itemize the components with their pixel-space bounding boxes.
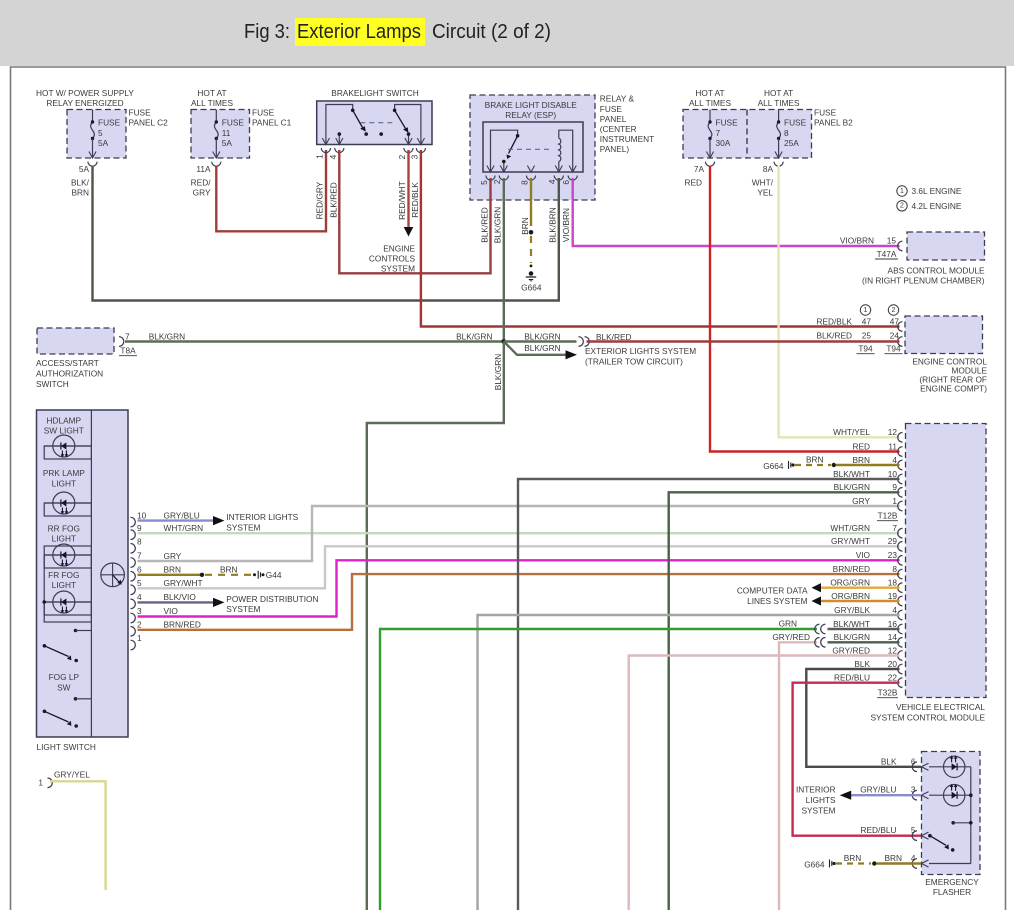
svg-text:(IN RIGHT PLENUM CHAMBER): (IN RIGHT PLENUM CHAMBER): [862, 276, 985, 286]
svg-text:12: 12: [888, 645, 898, 655]
svg-text:BLK/GRN: BLK/GRN: [493, 354, 503, 390]
svg-text:5: 5: [137, 578, 142, 588]
svg-text:GRY/YEL: GRY/YEL: [54, 770, 90, 780]
wire GRY/RED module pin 12 to bottom: [629, 656, 900, 910]
svg-text:7A: 7A: [694, 164, 705, 174]
svg-text:5: 5: [479, 180, 489, 185]
wire RED/BLK brakelight pin 3 to engine control module pin 47: [421, 150, 900, 327]
svg-text:LINES SYSTEM: LINES SYSTEM: [747, 596, 807, 606]
svg-text:12: 12: [888, 427, 898, 437]
svg-text:5A: 5A: [222, 138, 233, 148]
wire ORG/BRN module pin 19 to computer data lines: [812, 596, 900, 605]
svg-text:4: 4: [892, 605, 897, 615]
svg-text:G664: G664: [521, 283, 542, 293]
svg-text:GRN: GRN: [779, 619, 797, 629]
svg-text:3: 3: [409, 154, 419, 159]
svg-text:1: 1: [38, 778, 43, 788]
svg-text:BLK: BLK: [881, 756, 897, 766]
svg-text:4.2L ENGINE: 4.2L ENGINE: [912, 201, 962, 211]
svg-text:2: 2: [900, 203, 904, 210]
ground G664 dashed BRN to module pin 4: [763, 454, 899, 471]
svg-text:FUSE: FUSE: [129, 108, 152, 118]
junction node BLK/GRN: [501, 339, 506, 344]
svg-text:BRN: BRN: [520, 217, 530, 235]
svg-text:2: 2: [892, 307, 896, 314]
svg-text:BLK/GRN: BLK/GRN: [149, 331, 185, 341]
svg-text:PRK LAMP: PRK LAMP: [43, 468, 85, 478]
brake light disable relay (ESP): [470, 95, 595, 243]
wire BLK/GRN access switch to junction: [125, 331, 504, 341]
svg-text:BRN: BRN: [164, 565, 182, 575]
svg-text:BLK/VIO: BLK/VIO: [164, 592, 197, 602]
ground G664 below relay pin 8: [521, 178, 542, 293]
svg-text:HOT AT: HOT AT: [695, 88, 724, 98]
svg-text:8: 8: [519, 180, 529, 185]
wire BLK/WHT module pin 10 to bottom: [518, 479, 900, 910]
svg-text:POWER DISTRIBUTION: POWER DISTRIBUTION: [226, 594, 318, 604]
svg-text:ORG/GRN: ORG/GRN: [830, 578, 870, 588]
svg-text:PANEL C1: PANEL C1: [252, 118, 292, 128]
label computer data lines system: [737, 586, 808, 607]
svg-text:11: 11: [222, 128, 231, 138]
svg-text:VIO/BRN: VIO/BRN: [561, 208, 571, 242]
svg-text:WHT/: WHT/: [752, 177, 774, 187]
svg-text:11A: 11A: [196, 164, 211, 174]
svg-text:16: 16: [888, 619, 898, 629]
svg-text:ENGINE: ENGINE: [383, 244, 415, 254]
wire BLK/GRN junction to inline connector and BLK/RED to engine control module pin 25: [504, 331, 900, 346]
svg-text:GRY/BLU: GRY/BLU: [164, 510, 200, 520]
wire GRY/YEL light switch pin 1 connector below: [38, 770, 105, 891]
svg-text:RED: RED: [852, 441, 870, 451]
wire ORG/GRN module pin 18 to computer data lines: [812, 583, 900, 592]
svg-text:HDLAMP: HDLAMP: [47, 415, 82, 425]
svg-text:ACCESS/START: ACCESS/START: [36, 358, 99, 368]
svg-text:18: 18: [888, 578, 898, 588]
svg-text:FUSE: FUSE: [222, 118, 245, 128]
wire BLK module pin 20 to emergency flasher pin 6: [806, 669, 921, 767]
svg-text:BLK/GRN: BLK/GRN: [524, 331, 560, 341]
wire GRN from bottom to module pin 16 (BLK/WHT): [380, 619, 900, 910]
svg-text:G664: G664: [763, 461, 784, 471]
fuse F11 (FUSE PANEL C1): [191, 88, 292, 197]
svg-text:GRY/BLK: GRY/BLK: [834, 605, 870, 615]
legend engine variants: [897, 186, 962, 211]
svg-text:RELAY &: RELAY &: [600, 94, 635, 104]
svg-text:RED/BLK: RED/BLK: [410, 182, 420, 218]
svg-text:BLK/RED: BLK/RED: [816, 331, 852, 341]
wire BLK/GRN relay pin 2 to junction: [503, 178, 505, 342]
svg-text:15: 15: [887, 235, 897, 245]
svg-text:INSTRUMENT: INSTRUMENT: [600, 134, 654, 144]
svg-text:RED/GRY: RED/GRY: [315, 181, 325, 219]
svg-text:PANEL): PANEL): [600, 144, 630, 154]
svg-text:Exterior Lamps: Exterior Lamps: [297, 21, 421, 43]
svg-text:ABS CONTROL MODULE: ABS CONTROL MODULE: [888, 265, 985, 275]
svg-text:BRN: BRN: [852, 455, 870, 465]
svg-text:7: 7: [716, 128, 721, 138]
svg-text:VIO/BRN: VIO/BRN: [840, 235, 874, 245]
wire RED fuse 7 to module pin 11: [710, 166, 900, 452]
svg-text:6: 6: [911, 756, 916, 766]
wire RED/BLU module pin 22 to emergency flasher pin 5: [793, 683, 921, 836]
svg-text:BRN: BRN: [885, 853, 903, 863]
wire BRN/RED pin 2 to module pin 8: [138, 574, 900, 630]
ABS control module: [840, 232, 985, 286]
svg-text:T94: T94: [858, 344, 873, 354]
svg-text:7: 7: [137, 551, 142, 561]
svg-text:FUSE: FUSE: [600, 104, 623, 114]
svg-text:WHT/YEL: WHT/YEL: [833, 427, 870, 437]
svg-text:4: 4: [892, 455, 897, 465]
svg-text:7: 7: [892, 523, 897, 533]
brakelight switch: [314, 88, 432, 220]
svg-text:BLK/RED: BLK/RED: [596, 332, 632, 342]
wire RED/WHT brakelight pin 2 to engine controls system: [404, 150, 414, 237]
svg-text:PANEL: PANEL: [600, 114, 627, 124]
light switch: [37, 410, 129, 752]
label engine controls system: [369, 244, 416, 274]
fuse panel B2 (fuses 7 and 8): [683, 88, 853, 197]
svg-text:(CENTER: (CENTER: [600, 124, 637, 134]
svg-text:EXTERIOR LIGHTS SYSTEM: EXTERIOR LIGHTS SYSTEM: [585, 346, 696, 356]
svg-text:9: 9: [137, 523, 142, 533]
wire BLK/BRN from fuse 5 to relay pin 4 net: [93, 166, 561, 301]
svg-text:ALL TIMES: ALL TIMES: [689, 98, 731, 108]
svg-text:ALL TIMES: ALL TIMES: [191, 98, 233, 108]
svg-text:9: 9: [892, 482, 897, 492]
wire BLK/VIO pin 4 to power distribution system: [138, 592, 319, 614]
svg-text:4: 4: [911, 853, 916, 863]
svg-text:Circuit (2 of 2): Circuit (2 of 2): [432, 21, 551, 43]
svg-text:VEHICLE ELECTRICAL: VEHICLE ELECTRICAL: [896, 702, 985, 712]
wire BLK/GRN junction down-left to bottom: [367, 342, 504, 910]
svg-text:1: 1: [864, 307, 868, 314]
svg-text:BRN: BRN: [844, 853, 862, 863]
svg-text:LIGHT: LIGHT: [52, 580, 76, 590]
svg-text:COMPUTER DATA: COMPUTER DATA: [737, 586, 808, 596]
svg-text:RED/BLU: RED/BLU: [861, 825, 897, 835]
svg-text:47: 47: [862, 317, 872, 327]
emergency flasher: [860, 752, 980, 898]
svg-text:FUSE: FUSE: [98, 118, 121, 128]
wire WHT/GRN pin 9 to module pin 7: [138, 523, 900, 533]
svg-text:INTERIOR LIGHTS: INTERIOR LIGHTS: [226, 512, 298, 522]
svg-text:BRAKELIGHT SWITCH: BRAKELIGHT SWITCH: [331, 88, 418, 98]
wire RED/GRY fuse 11 to brakelight switch pin 1: [216, 150, 326, 231]
svg-text:8: 8: [784, 128, 789, 138]
wire GRY/BLU interior lights system to flasher pin 3: [796, 785, 921, 816]
wire GRY pin 7 to module pin 1: [138, 506, 900, 561]
svg-text:YEL: YEL: [757, 187, 773, 197]
svg-text:HOT AT: HOT AT: [197, 88, 226, 98]
svg-text:SYSTEM: SYSTEM: [381, 264, 415, 274]
svg-text:3.6L ENGINE: 3.6L ENGINE: [912, 186, 962, 196]
svg-text:7: 7: [125, 332, 130, 342]
svg-text:5A: 5A: [98, 138, 109, 148]
svg-text:GRY/WHT: GRY/WHT: [164, 578, 203, 588]
wire GRY/BLK module pin 4 to bottom: [478, 615, 900, 910]
svg-text:ORG/BRN: ORG/BRN: [831, 591, 870, 601]
header bar: [0, 0, 1014, 66]
svg-text:T47A: T47A: [877, 249, 897, 259]
svg-text:CONTROLS: CONTROLS: [369, 254, 416, 264]
svg-text:6: 6: [137, 565, 142, 575]
svg-text:RELAY ENERGIZED: RELAY ENERGIZED: [46, 98, 123, 108]
wire GRY/RED to module pin 14 (BLK/GRN): [772, 632, 899, 910]
wire WHT/YEL fuse 8 to module pin 12: [779, 166, 900, 438]
svg-text:BRAKE LIGHT DISABLE: BRAKE LIGHT DISABLE: [485, 100, 578, 110]
svg-text:BLK/GRN: BLK/GRN: [524, 343, 560, 353]
svg-text:BLK/GRN: BLK/GRN: [834, 482, 870, 492]
svg-text:GRY/RED: GRY/RED: [772, 632, 810, 642]
svg-text:INTERIOR: INTERIOR: [796, 785, 836, 795]
label relay &amp; fuse panel (center instrument panel): [600, 94, 654, 154]
svg-text:RELAY (ESP): RELAY (ESP): [505, 110, 556, 120]
svg-text:RED/WHT: RED/WHT: [397, 181, 407, 220]
svg-text:LIGHT SWITCH: LIGHT SWITCH: [37, 742, 96, 752]
svg-text:5: 5: [911, 825, 916, 835]
svg-text:1: 1: [314, 154, 324, 159]
svg-text:GRY/BLU: GRY/BLU: [860, 785, 896, 795]
svg-text:25: 25: [862, 331, 872, 341]
svg-text:BLK: BLK: [854, 659, 870, 669]
svg-text:VIO: VIO: [164, 606, 179, 616]
svg-text:BLK/: BLK/: [71, 177, 90, 187]
wire VIO/BRN relay pin 6 to ABS control module: [573, 178, 900, 246]
svg-text:AUTHORIZATION: AUTHORIZATION: [36, 369, 103, 379]
svg-text:FUSE: FUSE: [784, 118, 807, 128]
svg-text:SW: SW: [57, 682, 71, 692]
svg-text:HOT W/ POWER SUPPLY: HOT W/ POWER SUPPLY: [36, 88, 134, 98]
svg-text:BLK/GRN: BLK/GRN: [456, 331, 492, 341]
svg-text:10: 10: [137, 510, 147, 520]
wire GRY/WHT pin 5 to module pin 29: [138, 546, 900, 588]
svg-text:BRN/RED: BRN/RED: [833, 564, 870, 574]
svg-text:(TRAILER TOW CIRCUIT): (TRAILER TOW CIRCUIT): [585, 356, 683, 366]
svg-text:BLK/BRN: BLK/BRN: [547, 207, 557, 243]
svg-text:BRN/RED: BRN/RED: [164, 620, 201, 630]
svg-text:RED/BLU: RED/BLU: [834, 673, 870, 683]
svg-text:T12B: T12B: [878, 511, 898, 521]
svg-text:23: 23: [888, 550, 898, 560]
svg-text:2: 2: [397, 154, 407, 159]
svg-text:SW LIGHT: SW LIGHT: [44, 425, 84, 435]
svg-text:4: 4: [328, 154, 338, 159]
svg-text:FUSE: FUSE: [716, 118, 739, 128]
svg-text:RR FOG: RR FOG: [48, 523, 80, 533]
wire VIO pin 3 to module pin 23: [138, 560, 900, 616]
svg-text:BRN: BRN: [220, 565, 238, 575]
svg-text:1: 1: [137, 633, 142, 643]
svg-text:LIGHTS: LIGHTS: [806, 795, 836, 805]
svg-text:T8A: T8A: [120, 346, 136, 356]
svg-text:EMERGENCY: EMERGENCY: [925, 877, 979, 887]
svg-text:5A: 5A: [79, 164, 90, 174]
svg-text:RED: RED: [684, 177, 702, 187]
svg-text:FOG LP: FOG LP: [49, 672, 80, 682]
svg-text:1: 1: [900, 188, 904, 195]
svg-text:SYSTEM CONTROL MODULE: SYSTEM CONTROL MODULE: [871, 713, 986, 723]
svg-text:19: 19: [888, 591, 898, 601]
svg-text:WHT/GRN: WHT/GRN: [164, 523, 204, 533]
svg-text:3: 3: [911, 785, 916, 795]
svg-text:20: 20: [888, 659, 898, 669]
svg-text:BLK/RED: BLK/RED: [479, 207, 489, 243]
svg-text:FUSE: FUSE: [814, 108, 837, 118]
svg-text:HOT AT: HOT AT: [764, 88, 793, 98]
svg-text:RED/BLK: RED/BLK: [816, 317, 852, 327]
svg-text:8: 8: [137, 537, 142, 547]
svg-text:25A: 25A: [784, 138, 799, 148]
svg-text:VIO: VIO: [856, 550, 871, 560]
svg-text:SWITCH: SWITCH: [36, 379, 69, 389]
svg-text:BRN: BRN: [71, 187, 89, 197]
svg-text:BRN: BRN: [806, 454, 824, 464]
engine control module: [816, 305, 987, 394]
svg-text:ALL TIMES: ALL TIMES: [758, 98, 800, 108]
ground G664 dashed BRN to flasher pin 4: [804, 853, 921, 869]
svg-text:Fig 3:: Fig 3:: [244, 21, 290, 43]
svg-text:3: 3: [137, 606, 142, 616]
svg-text:30A: 30A: [716, 138, 731, 148]
wire BLK/BRN relay pin 4 down: [558, 178, 560, 301]
svg-text:GRY: GRY: [852, 496, 870, 506]
light switch pin connectors: [131, 510, 147, 650]
access/start authorization switch: [36, 328, 137, 389]
svg-text:1: 1: [892, 496, 897, 506]
svg-text:PANEL C2: PANEL C2: [129, 118, 169, 128]
svg-text:2: 2: [137, 620, 142, 630]
svg-text:8: 8: [892, 564, 897, 574]
svg-text:14: 14: [888, 632, 898, 642]
vehicle electrical system control module: [830, 424, 986, 723]
svg-text:FUSE: FUSE: [252, 108, 275, 118]
svg-text:LIGHT: LIGHT: [52, 534, 76, 544]
svg-text:BLK/RED: BLK/RED: [328, 182, 338, 218]
svg-text:GRY: GRY: [164, 551, 182, 561]
svg-text:FR FOG: FR FOG: [48, 570, 79, 580]
svg-text:G664: G664: [804, 859, 825, 869]
svg-text:5: 5: [98, 128, 103, 138]
svg-text:6: 6: [561, 180, 571, 185]
wire GRY/BLU pin 10 to interior lights system: [138, 510, 299, 532]
svg-text:24: 24: [890, 331, 900, 341]
svg-text:PANEL B2: PANEL B2: [814, 118, 853, 128]
svg-text:BLK/GRN: BLK/GRN: [834, 632, 870, 642]
svg-text:WHT/GRN: WHT/GRN: [830, 523, 870, 533]
svg-text:GRY/WHT: GRY/WHT: [831, 536, 870, 546]
svg-text:47: 47: [890, 317, 900, 327]
svg-text:8A: 8A: [763, 164, 774, 174]
svg-text:10: 10: [888, 469, 898, 479]
wire BRN pin 6 to ground G44: [138, 565, 282, 580]
svg-text:2: 2: [492, 179, 502, 184]
wire BLK/GRN module pin 9 to bottom: [669, 492, 900, 910]
svg-text:T32B: T32B: [878, 688, 898, 698]
svg-text:29: 29: [888, 536, 898, 546]
wire BLK/GRN branch to exterior lights system: [504, 342, 696, 367]
svg-text:G44: G44: [266, 570, 282, 580]
svg-text:4: 4: [137, 592, 142, 602]
svg-text:SYSTEM: SYSTEM: [226, 604, 260, 614]
svg-text:FLASHER: FLASHER: [933, 887, 971, 897]
svg-text:GRY: GRY: [193, 187, 211, 197]
svg-text:22: 22: [888, 673, 898, 683]
wire BLK/RED brakelight pin 4 to relay pin 5: [339, 150, 490, 273]
svg-text:BLK/GRN: BLK/GRN: [493, 207, 503, 243]
fuse F5 (FUSE PANEL C2): [36, 88, 168, 197]
svg-text:SYSTEM: SYSTEM: [801, 806, 835, 816]
svg-text:BLK/WHT: BLK/WHT: [833, 619, 870, 629]
svg-text:LIGHT: LIGHT: [52, 478, 76, 488]
svg-text:T94: T94: [886, 344, 901, 354]
svg-text:4: 4: [547, 179, 557, 184]
svg-text:RED/: RED/: [191, 177, 212, 187]
svg-text:SYSTEM: SYSTEM: [226, 522, 260, 532]
svg-text:ENGINE COMPT): ENGINE COMPT): [920, 384, 987, 394]
svg-text:GRY/RED: GRY/RED: [832, 645, 870, 655]
svg-text:11: 11: [888, 441, 897, 451]
svg-text:BLK/WHT: BLK/WHT: [833, 469, 870, 479]
